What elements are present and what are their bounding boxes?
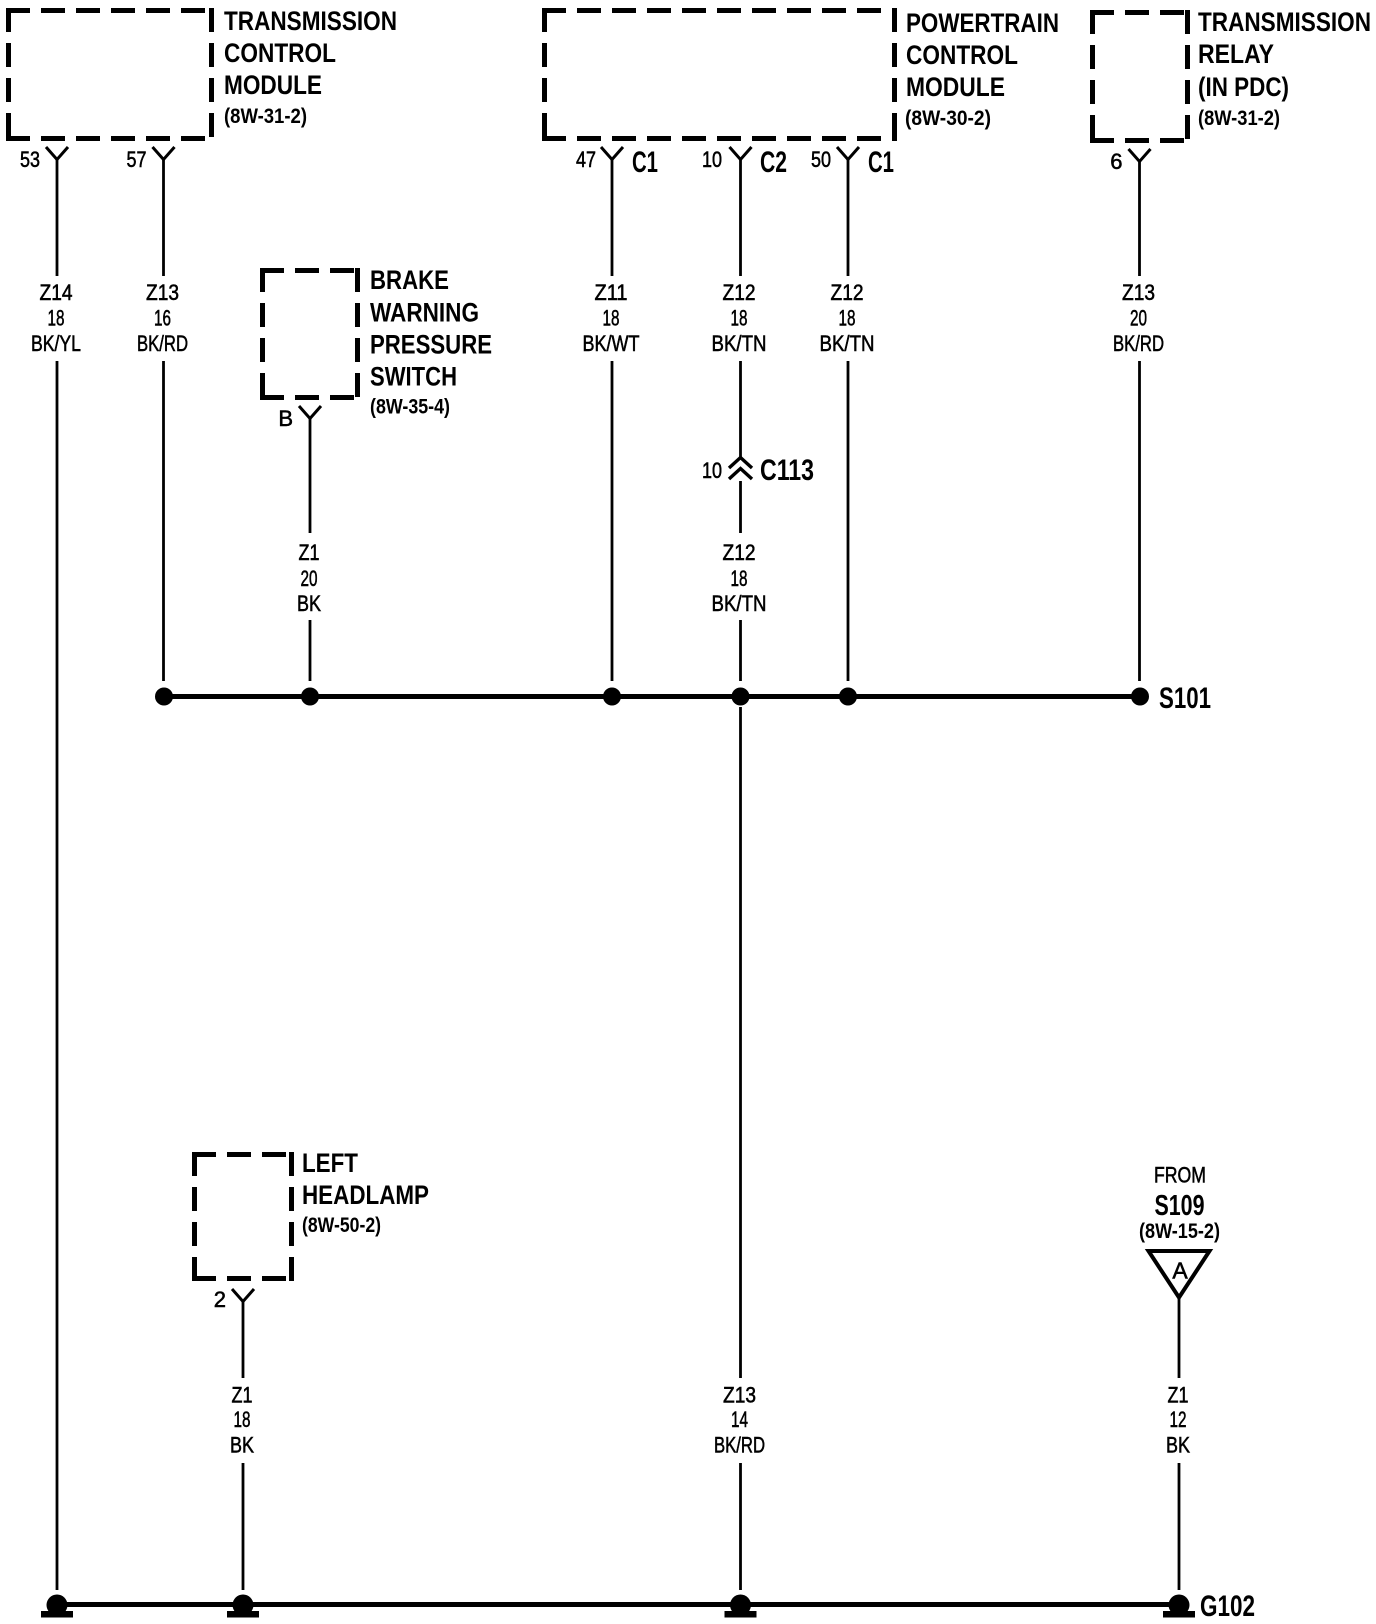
label Z14 18 BK/YL — [31, 280, 81, 356]
svg-text:Z13: Z13 — [146, 280, 179, 305]
svg-text:BK/TN: BK/TN — [820, 331, 875, 356]
svg-text:CONTROL: CONTROL — [224, 38, 336, 68]
svg-text:S101: S101 — [1159, 682, 1211, 715]
brake warning pressure switch label — [370, 265, 492, 419]
svg-text:Z1: Z1 — [232, 1383, 253, 1408]
bus G102 — [57, 1602, 1179, 1607]
svg-text:TRANSMISSION: TRANSMISSION — [1198, 7, 1371, 37]
wire Z13 lower segment to S101 — [162, 361, 165, 681]
transmission control module box — [6, 8, 214, 141]
svg-text:POWERTRAIN: POWERTRAIN — [906, 8, 1059, 38]
svg-text:BK/RD: BK/RD — [714, 1433, 765, 1458]
powertrain control module label — [905, 8, 1059, 130]
wire center column below S101 — [739, 707, 742, 1378]
label Z13 14 BK/RD center — [714, 1383, 765, 1458]
pin 50 C1 — [811, 146, 894, 179]
svg-text:Z11: Z11 — [595, 280, 628, 305]
svg-text:(8W-30-2): (8W-30-2) — [905, 107, 991, 130]
transmission relay box — [1090, 10, 1190, 143]
wire Z11 lower segment to S101 — [611, 361, 614, 681]
svg-text:16: 16 — [154, 306, 171, 331]
svg-text:18: 18 — [839, 306, 856, 331]
label Z12 18 BK/TN upper — [712, 280, 767, 356]
ground dot col headlamp — [227, 1595, 259, 1618]
label Z13 20 BK/RD — [1113, 280, 1164, 356]
svg-text:20: 20 — [1130, 306, 1147, 331]
svg-text:SWITCH: SWITCH — [370, 362, 457, 392]
wire Z12 pin50 upper segment — [847, 160, 850, 277]
left headlamp box — [192, 1152, 294, 1281]
wire center column to G102 — [739, 1463, 742, 1590]
svg-text:BK: BK — [1166, 1433, 1190, 1458]
from S109 label — [1139, 1163, 1220, 1244]
svg-text:PRESSURE: PRESSURE — [370, 330, 492, 360]
svg-text:18: 18 — [234, 1407, 251, 1432]
wire Z1 12 BK lower segment to G102 — [1178, 1463, 1181, 1590]
wire Z13 relay upper segment — [1138, 162, 1141, 277]
svg-text:10: 10 — [702, 147, 722, 172]
svg-text:18: 18 — [731, 566, 748, 591]
ground dot col S109 — [1163, 1595, 1195, 1618]
svg-text:Z12: Z12 — [723, 540, 756, 565]
wire Z1 brake switch lower segment to S101 — [309, 620, 312, 681]
svg-text:C1: C1 — [632, 146, 658, 179]
ground dot col center — [725, 1595, 757, 1618]
pin 57 — [127, 147, 175, 172]
svg-text:Z13: Z13 — [1122, 280, 1155, 305]
svg-text:S109: S109 — [1155, 1190, 1205, 1222]
wire Z1 brake switch upper segment — [309, 419, 312, 534]
label Z1 12 BK — [1166, 1383, 1190, 1458]
svg-text:6: 6 — [1110, 149, 1122, 174]
svg-text:Z1: Z1 — [1168, 1383, 1189, 1408]
junction dot S101 col Z13 — [155, 688, 173, 706]
junction dot S101 col Z11 — [603, 688, 621, 706]
svg-text:Z1: Z1 — [299, 540, 320, 565]
svg-text:C1: C1 — [868, 146, 894, 179]
svg-text:53: 53 — [20, 147, 40, 172]
wire Z12 segment to S101 — [739, 620, 742, 681]
svg-text:57: 57 — [127, 147, 147, 172]
junction dot S101 col brake — [301, 688, 319, 706]
brake warning pressure switch box — [260, 268, 360, 400]
connector C113 — [702, 454, 814, 487]
transmission control module label — [224, 6, 397, 128]
wire Z13 upper segment — [162, 160, 165, 277]
transmission relay label — [1198, 7, 1371, 130]
label Z1 20 BK — [297, 540, 321, 616]
junction dot S101 col Z12 pin50 — [839, 688, 857, 706]
svg-text:TRANSMISSION: TRANSMISSION — [224, 6, 397, 36]
svg-text:(8W-15-2): (8W-15-2) — [1139, 1220, 1220, 1243]
label Z12 18 BK/TN lower — [712, 540, 767, 616]
wire Z14 upper segment — [56, 160, 59, 277]
svg-text:10: 10 — [702, 458, 722, 483]
wire headlamp lower segment to G102 — [242, 1463, 245, 1590]
svg-text:BK/TN: BK/TN — [712, 591, 767, 616]
svg-text:C113: C113 — [760, 454, 814, 487]
wire Z1 12 BK upper segment — [1178, 1298, 1181, 1379]
svg-text:BK: BK — [230, 1433, 254, 1458]
powertrain control module box — [542, 8, 897, 141]
svg-text:18: 18 — [731, 306, 748, 331]
svg-text:WARNING: WARNING — [370, 298, 479, 328]
label Z12 18 BK/TN pin50 — [820, 280, 875, 356]
ground dot col Z14 — [41, 1595, 73, 1618]
svg-text:C2: C2 — [760, 146, 787, 179]
svg-text:A: A — [1172, 1258, 1188, 1284]
label Z11 18 BK/WT — [583, 280, 640, 356]
svg-text:LEFT: LEFT — [302, 1148, 358, 1178]
svg-text:G102: G102 — [1200, 1590, 1255, 1623]
svg-text:BK/RD: BK/RD — [1113, 331, 1164, 356]
junction dot S101 col Z12 center — [732, 688, 750, 706]
wire Z12 pin50 lower segment to S101 — [847, 361, 850, 681]
svg-text:12: 12 — [1170, 1407, 1187, 1432]
pin 10 C2 — [702, 146, 787, 179]
junction dot S101 col relay — [1131, 688, 1149, 706]
pin B — [278, 406, 321, 431]
svg-text:(8W-50-2): (8W-50-2) — [302, 1214, 381, 1237]
wire Z12 segment to C113 — [739, 361, 742, 458]
svg-text:18: 18 — [48, 306, 65, 331]
wire Z12 pin10 upper segment — [739, 160, 742, 277]
svg-text:BK/YL: BK/YL — [31, 331, 81, 356]
bus S101 — [164, 694, 1140, 699]
pin 53 — [20, 147, 68, 172]
svg-text:14: 14 — [731, 1407, 748, 1432]
svg-text:BK/TN: BK/TN — [712, 331, 767, 356]
svg-text:18: 18 — [603, 306, 620, 331]
svg-text:(8W-31-2): (8W-31-2) — [1198, 107, 1280, 130]
label Z1 18 BK headlamp — [230, 1383, 254, 1458]
svg-text:47: 47 — [576, 147, 596, 172]
svg-text:(8W-31-2): (8W-31-2) — [224, 105, 307, 128]
wire Z13 relay lower segment to S101 — [1138, 361, 1141, 681]
svg-text:50: 50 — [811, 147, 831, 172]
svg-text:Z13: Z13 — [723, 1383, 756, 1408]
wire headlamp upper segment — [242, 1302, 245, 1379]
svg-text:CONTROL: CONTROL — [906, 40, 1018, 70]
svg-text:MODULE: MODULE — [224, 70, 322, 100]
svg-text:BK/WT: BK/WT — [583, 331, 640, 356]
svg-text:20: 20 — [301, 566, 318, 591]
wire Z11 upper segment — [611, 160, 614, 277]
svg-text:BK/RD: BK/RD — [137, 331, 188, 356]
svg-text:(8W-35-4): (8W-35-4) — [370, 396, 450, 419]
pin 6 — [1110, 149, 1150, 174]
label Z13 16 BK/RD — [137, 280, 188, 356]
svg-text:B: B — [278, 406, 293, 431]
svg-text:Z14: Z14 — [40, 280, 73, 305]
svg-text:BRAKE: BRAKE — [370, 265, 449, 295]
wire Z14 long segment to G102 — [56, 361, 59, 1590]
svg-text:2: 2 — [214, 1287, 226, 1312]
pin 2 — [214, 1287, 254, 1312]
svg-text:FROM: FROM — [1154, 1163, 1206, 1188]
pin 47 C1 — [576, 146, 658, 179]
svg-text:Z12: Z12 — [723, 280, 756, 305]
svg-text:MODULE: MODULE — [906, 72, 1005, 102]
wire Z12 below C113 — [739, 481, 742, 533]
svg-text:RELAY: RELAY — [1198, 39, 1274, 69]
svg-text:Z12: Z12 — [831, 280, 864, 305]
svg-text:(IN PDC): (IN PDC) — [1198, 72, 1289, 102]
svg-text:BK: BK — [297, 591, 321, 616]
svg-text:HEADLAMP: HEADLAMP — [302, 1180, 429, 1210]
connector triangle A from S109 — [1149, 1251, 1210, 1298]
left headlamp label — [302, 1148, 429, 1237]
